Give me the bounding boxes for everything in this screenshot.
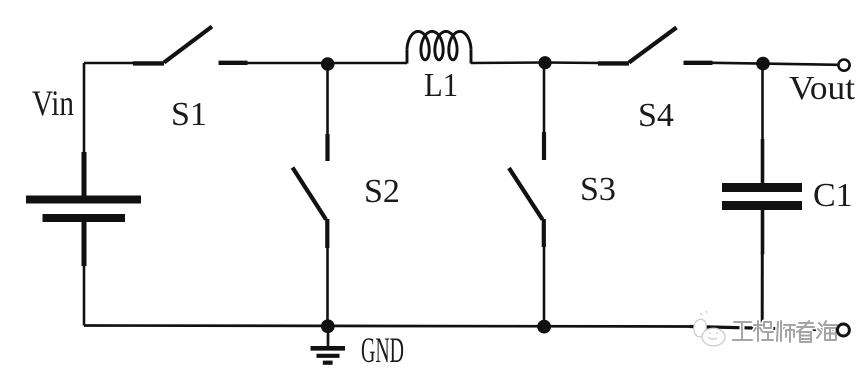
capacitor C1	[722, 139, 802, 254]
switch S1	[133, 27, 248, 64]
junction dot: S3 / bottom rail	[537, 320, 551, 334]
wire: S4 to node C	[711, 61, 763, 64]
wire: node C down to capacitor C1	[761, 64, 764, 142]
svg-text:GND: GND	[361, 330, 404, 370]
switch S2	[293, 134, 328, 248]
inductor L1	[407, 31, 471, 63]
svg-text:L1: L1	[424, 67, 458, 104]
wire: inductor to node B	[471, 61, 545, 64]
wire: node A to inductor	[328, 62, 408, 65]
wire: left vertical from top rail corner down to battery	[83, 63, 86, 155]
watermark text 工程师看海 (drawn strokes)	[733, 321, 837, 342]
svg-text:Vout: Vout	[789, 70, 856, 107]
wire: node B to switch S4	[545, 61, 599, 64]
wire: node A down to switch S2	[326, 63, 329, 136]
wire: S3 down to bottom rail	[543, 245, 546, 327]
switch S3	[509, 132, 544, 247]
svg-text:S2: S2	[364, 173, 400, 210]
wire: bottom rail	[84, 326, 690, 327]
switch S4	[598, 28, 713, 64]
wire: left vertical from battery down to bottom rail	[83, 264, 86, 326]
svg-text:Vin: Vin	[32, 83, 74, 123]
svg-text:C1: C1	[813, 177, 853, 214]
wire: S2 down to bottom rail	[326, 246, 329, 326]
terminal: bottom-right open circle	[837, 324, 849, 336]
watermark logo (sketch doodle)	[694, 311, 725, 346]
svg-text:S1: S1	[171, 96, 207, 133]
terminal: Vout open circle	[838, 60, 849, 71]
wire: node B down to switch S3	[543, 63, 546, 135]
node B junction dot	[538, 56, 551, 69]
node C junction dot	[756, 57, 770, 71]
svg-text:S3: S3	[580, 171, 616, 208]
wire: bottom rail right segment to output terminal	[690, 327, 837, 331]
wire: node C to Vout terminal	[763, 64, 838, 65]
junction dot: S2 / bottom rail	[321, 319, 335, 333]
wire: S1 to node A	[246, 62, 328, 65]
wire: top rail from battery corner to switch S1	[84, 62, 134, 65]
battery B1 (Vin source)	[26, 152, 141, 266]
ground symbol	[311, 326, 346, 363]
wire: capacitor down to bottom rail	[761, 252, 764, 329]
svg-text:S4: S4	[638, 97, 674, 134]
node A junction dot	[321, 57, 335, 71]
